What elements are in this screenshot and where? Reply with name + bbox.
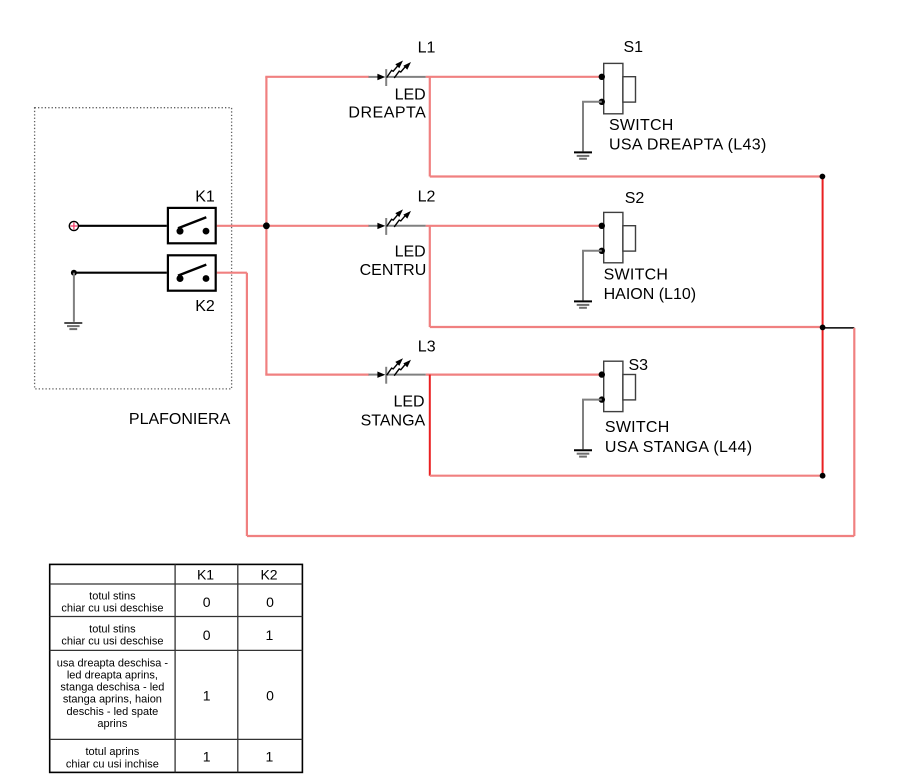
junction row1 return right <box>820 174 826 180</box>
truth table <box>50 564 303 772</box>
switch S2 <box>599 212 636 262</box>
svg-text:K1: K1 <box>195 189 215 206</box>
wire row2 feed <box>217 225 369 227</box>
junction row2 return right <box>820 325 826 331</box>
table row2 values <box>203 627 274 643</box>
table row3 description <box>57 657 169 730</box>
junction K2-ground <box>71 270 77 276</box>
wire ground to K2 <box>74 272 167 274</box>
svg-text:L3: L3 <box>418 338 436 355</box>
svg-text:deschis - led spate: deschis - led spate <box>67 706 159 718</box>
svg-text:stanga aprins, haion: stanga aprins, haion <box>63 694 162 706</box>
svg-text:K2: K2 <box>260 566 277 582</box>
wire row1 feed <box>265 76 369 78</box>
svg-text:S3: S3 <box>629 357 649 374</box>
svg-text:1: 1 <box>203 688 211 704</box>
wire row1 return <box>430 175 823 177</box>
wire black jog <box>823 327 855 329</box>
junction K1 output bus <box>263 222 270 229</box>
table row4 description <box>66 746 159 770</box>
svg-text:0: 0 <box>266 594 274 610</box>
svg-text:totul stins: totul stins <box>89 591 136 603</box>
dotted enclosure PLAFONIERA <box>35 108 232 389</box>
svg-text:K2: K2 <box>195 298 215 315</box>
svg-text:0: 0 <box>203 594 211 610</box>
wire row3 feed <box>265 374 369 376</box>
label SWITCH USA DREAPTA <box>609 117 767 153</box>
svg-text:S1: S1 <box>624 39 644 56</box>
wire S2 ground lead <box>583 251 602 301</box>
table row4 values <box>203 749 274 765</box>
svg-text:SWITCH: SWITCH <box>609 117 674 134</box>
wire row1 LED to switch S1 <box>426 76 602 78</box>
switch S1 <box>599 63 636 113</box>
svg-text:K1: K1 <box>197 566 214 582</box>
svg-text:L2: L2 <box>418 189 436 206</box>
svg-text:LED: LED <box>393 394 424 411</box>
relay contact K2 <box>168 255 216 290</box>
svg-text:chiar cu usi deschise: chiar cu usi deschise <box>61 636 163 648</box>
label SWITCH HAION <box>604 266 696 303</box>
ground plafoniera <box>64 323 82 329</box>
svg-text:1: 1 <box>266 627 274 643</box>
wire right salmon vertical <box>853 328 855 536</box>
wire row2 return <box>430 326 823 328</box>
svg-text:totul stins: totul stins <box>89 624 136 636</box>
svg-text:USA DREAPTA (L43): USA DREAPTA (L43) <box>609 137 767 154</box>
svg-text:aprins: aprins <box>97 718 127 730</box>
svg-text:1: 1 <box>266 749 274 765</box>
terminal +12V input <box>69 221 78 230</box>
svg-text:PLAFONIERA: PLAFONIERA <box>129 411 231 428</box>
svg-text:SWITCH: SWITCH <box>604 266 669 283</box>
table row1 values <box>203 594 274 610</box>
wire row3 drop bright <box>429 375 431 476</box>
svg-text:1: 1 <box>203 749 211 765</box>
svg-text:HAION (L10): HAION (L10) <box>604 286 696 303</box>
LED L1 <box>369 61 426 87</box>
svg-text:chiar cu usi inchise: chiar cu usi inchise <box>66 758 159 770</box>
table row1 description <box>61 591 163 615</box>
wire bottom horizontal <box>247 535 854 537</box>
wire ground lead <box>73 273 75 322</box>
wire S3 ground lead <box>583 400 602 450</box>
wire row1 drop <box>429 77 431 177</box>
LED L3 <box>369 358 426 384</box>
svg-text:USA STANGA (L44): USA STANGA (L44) <box>605 439 753 456</box>
table row2 description <box>61 624 163 648</box>
wire row3 LED to switch S3 <box>426 374 602 376</box>
svg-text:CENTRU: CENTRU <box>360 262 427 279</box>
svg-text:LED: LED <box>395 86 426 103</box>
wire row2 LED to switch S2 <box>426 225 602 227</box>
svg-text:usa dreapta deschisa -: usa dreapta deschisa - <box>57 657 169 669</box>
label LED DREAPTA <box>348 86 426 121</box>
relay contact K1 <box>168 208 216 243</box>
label SWITCH USA STANGA <box>605 419 753 456</box>
svg-text:totul aprins: totul aprins <box>85 746 139 758</box>
wire K2 drop <box>246 273 248 536</box>
switch S3 <box>599 361 636 411</box>
ground S1 <box>574 152 592 158</box>
ground S2 <box>574 301 592 307</box>
wire row2 drop <box>429 226 431 327</box>
svg-text:chiar cu usi deschise: chiar cu usi deschise <box>61 603 163 615</box>
wire K2 output <box>217 272 247 274</box>
wire bus vertical from K1 output <box>265 77 267 375</box>
svg-text:L1: L1 <box>418 40 436 57</box>
wire row3 return <box>430 475 823 477</box>
label LED STANGA <box>361 394 426 430</box>
svg-text:S2: S2 <box>625 190 645 207</box>
svg-text:0: 0 <box>266 688 274 704</box>
svg-text:stanga deschisa - led: stanga deschisa - led <box>60 682 164 694</box>
ground S3 <box>574 450 592 456</box>
wire S1 ground lead <box>583 102 602 152</box>
label LED CENTRU <box>360 244 427 279</box>
svg-text:0: 0 <box>203 627 211 643</box>
wire terminal to K1 <box>78 225 167 227</box>
junction row3 return right <box>820 473 826 479</box>
svg-text:DREAPTA: DREAPTA <box>348 105 426 122</box>
LED L2 <box>369 209 426 235</box>
svg-text:LED: LED <box>395 244 426 261</box>
svg-text:SWITCH: SWITCH <box>605 419 670 436</box>
table row3 values <box>203 688 274 704</box>
svg-text:STANGA: STANGA <box>361 412 426 429</box>
wire right vertical bright <box>822 177 824 476</box>
svg-text:led dreapta aprins,: led dreapta aprins, <box>67 669 158 681</box>
